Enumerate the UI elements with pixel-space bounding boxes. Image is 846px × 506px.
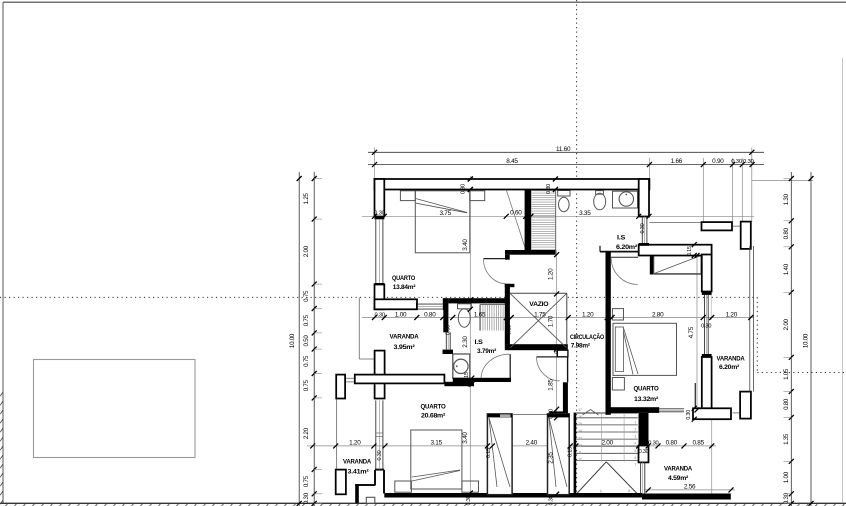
svg-text:1.00: 1.00	[783, 471, 790, 483]
column varanda 6.20 C	[740, 392, 751, 419]
horizontal dim line y=317	[362, 317, 754, 319]
window stairs right lower	[640, 462, 642, 493]
svg-text:0.75: 0.75	[303, 290, 310, 302]
site boundary top edge	[3, 1, 846, 3]
wall stair right	[639, 413, 649, 446]
glass panel 1	[487, 414, 512, 495]
svg-text:8: 8	[628, 489, 630, 493]
wall I.S 3.79 top	[448, 298, 506, 303]
door quarto 13.32	[611, 256, 638, 258]
svg-text:0.15: 0.15	[687, 246, 693, 256]
svg-text:VARANDA: VARANDA	[717, 355, 745, 362]
bed quarto 20.68	[411, 430, 462, 489]
svg-text:3.40: 3.40	[462, 432, 469, 444]
svg-text:0.80: 0.80	[783, 398, 790, 410]
svg-text:0.75: 0.75	[303, 475, 310, 487]
dim extension line top-right corner	[751, 148, 753, 223]
bench left quarto 20.68	[395, 481, 412, 492]
dim ticks y=446 chain	[310, 443, 315, 448]
dim 0.15 wardrobe wall	[692, 242, 697, 247]
svg-text:0.15: 0.15	[464, 372, 470, 382]
wall bottom exterior	[384, 493, 642, 498]
column top-right B	[741, 222, 751, 249]
svg-text:11: 11	[578, 451, 582, 455]
svg-text:6: 6	[635, 456, 637, 460]
svg-text:3.35: 3.35	[579, 210, 591, 217]
dim extension line x=649	[648, 158, 650, 180]
svg-text:15: 15	[578, 422, 582, 426]
svg-text:1.75: 1.75	[534, 312, 546, 319]
wall stub wardrobe	[650, 255, 654, 275]
svg-text:0.30: 0.30	[701, 324, 711, 330]
stair direction chevron	[576, 462, 606, 494]
svg-text:16: 16	[578, 415, 582, 419]
svg-text:0.60: 0.60	[510, 209, 522, 216]
svg-text:2.30: 2.30	[462, 336, 469, 348]
pool rectangle	[34, 360, 196, 458]
wall corridor left lower	[563, 382, 568, 411]
svg-text:0.30: 0.30	[303, 492, 310, 504]
svg-text:13.32m²: 13.32m²	[634, 396, 659, 403]
svg-text:10: 10	[578, 458, 582, 462]
bed quarto 13.32	[613, 323, 677, 375]
site boundary left edge	[2, 2, 4, 503]
washbasin counter I.S 6.20	[613, 191, 638, 208]
glass panel 2	[548, 414, 570, 495]
svg-text:3.40: 3.40	[462, 239, 469, 251]
shower hatch I.S 3.79	[480, 305, 482, 331]
wall bottom-left zigzag	[375, 469, 384, 471]
wall quarto 13.32 left partition	[606, 252, 611, 415]
svg-text:3.15: 3.15	[430, 439, 442, 446]
svg-text:2.80: 2.80	[652, 312, 664, 319]
vertical dotted axis line	[576, 0, 578, 495]
svg-text:14: 14	[578, 429, 582, 433]
dim extension line x=703	[702, 158, 704, 222]
window below cross	[375, 400, 377, 469]
left dim 10.00	[298, 172, 300, 506]
svg-text:0.15: 0.15	[568, 447, 574, 457]
svg-text:1.00: 1.00	[395, 312, 407, 319]
svg-text:0.30: 0.30	[546, 184, 552, 194]
wall stair-right pier	[639, 446, 649, 463]
balcony rail varanda 3.95	[358, 297, 360, 359]
svg-text:10.00: 10.00	[803, 333, 810, 348]
svg-text:I.S: I.S	[475, 339, 484, 346]
rail connector left cross	[345, 377, 355, 379]
svg-text:1.05: 1.05	[783, 368, 790, 380]
svg-text:0.80: 0.80	[666, 439, 678, 446]
dim 0.15 counter	[469, 376, 474, 381]
terrace edge line top-right	[649, 221, 701, 223]
svg-text:0.30: 0.30	[377, 450, 383, 460]
wall corridor left line	[567, 357, 569, 383]
column connector top-right	[732, 225, 741, 227]
step box bottom-left	[366, 497, 375, 503]
svg-text:4.75: 4.75	[688, 326, 695, 338]
svg-text:4.59m²: 4.59m²	[668, 475, 689, 482]
door I.S 3.79	[509, 354, 511, 378]
dim line 11.60	[368, 151, 764, 153]
svg-text:6.20m²: 6.20m²	[719, 364, 740, 371]
door jamb box vazio	[557, 350, 568, 357]
left dimension chain	[313, 172, 315, 506]
svg-text:0.80: 0.80	[783, 227, 790, 239]
stair stringer lines	[601, 413, 603, 462]
window I.S 3.79 left	[445, 332, 447, 349]
svg-text:1.35: 1.35	[783, 433, 790, 445]
vazio opening outline	[510, 292, 567, 294]
svg-text:3.95m²: 3.95m²	[394, 344, 416, 351]
nightstand top quarto 13.32	[612, 309, 623, 320]
svg-text:0.15: 0.15	[486, 448, 492, 458]
balcony edge varanda 4.59	[711, 419, 713, 494]
svg-text:1.25: 1.25	[303, 192, 310, 204]
nightstand right quarto 13.84	[470, 191, 485, 201]
bed quarto 13.84	[415, 191, 470, 253]
svg-text:VAZIO: VAZIO	[529, 301, 548, 308]
svg-text:0.30: 0.30	[549, 495, 555, 505]
dim extension line x=733	[732, 158, 734, 222]
svg-text:1.20: 1.20	[548, 268, 555, 280]
svg-text:6.20m²: 6.20m²	[616, 244, 638, 251]
wall left mid pier	[375, 284, 385, 309]
door quarto 13.84	[483, 258, 505, 260]
column D left	[336, 375, 345, 399]
column top-right A	[702, 222, 733, 230]
svg-text:I.S: I.S	[617, 234, 626, 241]
svg-text:10.00: 10.00	[289, 333, 296, 348]
wall quarto 13.32 right upper	[702, 255, 712, 292]
vertical dim line x=697	[696, 250, 698, 415]
svg-text:0.30: 0.30	[374, 210, 384, 216]
column E varanda 3.41	[336, 470, 346, 495]
svg-text:7.98m²: 7.98m²	[571, 342, 591, 349]
right dimension chain	[790, 172, 792, 506]
svg-text:0.15: 0.15	[606, 324, 612, 334]
window quarto 13.32 bottom	[659, 408, 684, 410]
wall stub quarto door	[505, 255, 510, 260]
setback dotted line left	[0, 296, 509, 298]
toilet I.S 6.20	[558, 191, 570, 197]
wall bottom varanda 4.59	[642, 494, 731, 500]
dim verticals x=556	[554, 252, 559, 257]
wall bath right	[639, 179, 649, 217]
horizontal dim line y=216	[362, 215, 754, 217]
svg-text:9: 9	[600, 490, 602, 494]
svg-text:8.45: 8.45	[506, 158, 518, 165]
wall quarto 13.32 bottom	[606, 407, 660, 413]
bench right quarto 20.68	[462, 481, 479, 492]
svg-text:VARANDA: VARANDA	[390, 333, 419, 340]
svg-text:0.75: 0.75	[303, 379, 310, 391]
svg-text:13: 13	[578, 436, 582, 440]
svg-text:0.30: 0.30	[648, 440, 658, 446]
jamb line varanda 4.59	[694, 383, 696, 408]
stair treads	[576, 412, 638, 414]
svg-text:QUARTO: QUARTO	[634, 385, 659, 392]
toilet I.S 3.79	[458, 304, 472, 309]
wall below shower	[505, 250, 556, 255]
svg-text:3.75: 3.75	[439, 210, 451, 217]
svg-text:0.30: 0.30	[640, 223, 646, 233]
window quarto 13.32 right	[704, 295, 706, 354]
wall partition shower left	[525, 190, 532, 251]
svg-text:3: 3	[635, 435, 637, 439]
svg-text:0.30: 0.30	[374, 312, 384, 318]
right dim 10.00	[810, 172, 812, 506]
svg-text:2.00: 2.00	[601, 439, 613, 446]
window quarto 13.84 left	[375, 219, 377, 283]
svg-text:2.56: 2.56	[684, 484, 696, 491]
svg-text:5: 5	[635, 449, 637, 453]
svg-text:17: 17	[578, 408, 582, 412]
dim extension line x=742	[741, 158, 743, 222]
wardrobe quarto 13.32	[654, 256, 701, 274]
setback dotted corner vertical	[756, 297, 758, 372]
svg-text:0.90: 0.90	[712, 158, 724, 165]
svg-text:0.30: 0.30	[743, 159, 755, 165]
svg-text:0.30: 0.30	[731, 159, 743, 165]
dim 0.30 wall top at x=555	[553, 177, 558, 182]
svg-text:QUARTO: QUARTO	[392, 275, 415, 282]
svg-text:2.00: 2.00	[303, 245, 310, 257]
setback dotted corner horizontal	[757, 372, 846, 374]
svg-text:1.66: 1.66	[671, 158, 683, 165]
svg-text:1.85: 1.85	[548, 379, 555, 391]
svg-text:3.79m²: 3.79m²	[477, 348, 497, 355]
dim line 8.45 chain	[368, 164, 764, 166]
svg-text:2.20: 2.20	[303, 427, 310, 439]
svg-text:2.35: 2.35	[548, 452, 555, 464]
nightstand left quarto 13.84	[400, 191, 415, 201]
column connector bottom-right	[732, 412, 740, 414]
wall cross vertical	[375, 351, 385, 399]
svg-text:1.40: 1.40	[783, 263, 790, 275]
svg-text:0.15: 0.15	[554, 344, 560, 354]
extension line right top	[752, 180, 813, 182]
window varanda 6.20 edge	[749, 246, 751, 392]
extension line x=711	[710, 256, 712, 321]
svg-text:0.30: 0.30	[686, 410, 692, 420]
horizontal dim line y=490	[644, 489, 735, 491]
svg-text:11.60: 11.60	[556, 146, 571, 153]
dim verticals x=470	[468, 177, 473, 182]
svg-text:1.30: 1.30	[783, 193, 790, 205]
svg-text:3.41m²: 3.41m²	[348, 468, 370, 475]
left boundary hatch ticks	[0, 392, 3, 396]
horizontal dim line y=446	[307, 445, 716, 447]
wall I.S 6.20 bottom line	[600, 251, 639, 253]
svg-text:0.30: 0.30	[549, 409, 555, 419]
balcony rail varanda 3.41	[336, 399, 338, 470]
wall quarto 13.84 bottom	[375, 299, 418, 309]
svg-text:0.30: 0.30	[446, 325, 452, 335]
wall cap above counter	[443, 350, 454, 354]
dim vertical 4.75	[695, 253, 700, 258]
wall top exterior	[375, 179, 650, 190]
setback dotted line right	[568, 296, 758, 298]
svg-text:VARANDA: VARANDA	[664, 465, 692, 472]
svg-text:0.80: 0.80	[424, 312, 436, 319]
vazio cross diagonal 2	[510, 294, 566, 348]
wall cross horizontal	[355, 375, 445, 384]
wall left upper	[375, 179, 385, 217]
bidet I.S 6.20	[596, 191, 604, 195]
dim 0.30 varanda top bar	[692, 406, 697, 411]
svg-text:QUARTO: QUARTO	[421, 403, 446, 410]
window quarto 13.84 bottom	[417, 303, 443, 305]
dim 2.56	[646, 487, 651, 492]
wall stair left	[574, 413, 577, 495]
wall varanda 4.59 top bar	[693, 408, 731, 419]
svg-text:1: 1	[635, 420, 637, 424]
svg-text:0.30: 0.30	[466, 495, 472, 505]
vertical dim line x=470	[469, 176, 471, 497]
svg-text:0.75: 0.75	[303, 355, 310, 367]
svg-text:1.20: 1.20	[726, 312, 738, 319]
svg-text:1.65: 1.65	[474, 312, 486, 319]
svg-text:0.85: 0.85	[692, 439, 704, 446]
wall vazio left	[505, 284, 510, 345]
shower hatch I.S 6.20	[532, 190, 556, 192]
svg-text:2.40: 2.40	[526, 439, 538, 446]
dim ticks y=317 chain	[372, 315, 377, 320]
svg-text:0.15: 0.15	[507, 325, 513, 335]
svg-text:7: 7	[635, 463, 637, 467]
vazio cross diagonal 1	[510, 294, 566, 348]
wall I.S 3.79 bottom lower	[444, 382, 474, 386]
svg-text:2.00: 2.00	[783, 318, 790, 330]
dim ticks y=216 room widths	[372, 214, 377, 219]
window bath right	[641, 217, 643, 244]
svg-text:VARANDA: VARANDA	[343, 458, 371, 465]
svg-text:0.30: 0.30	[461, 184, 467, 194]
svg-text:0.30: 0.30	[639, 449, 649, 455]
right site reference line	[842, 58, 844, 502]
svg-text:CIRCULAÇÃO: CIRCULAÇÃO	[570, 332, 604, 341]
svg-text:20.68m²: 20.68m²	[421, 412, 446, 419]
duct shaft 0.60 diagonal	[507, 191, 526, 249]
svg-text:4: 4	[635, 442, 637, 446]
nightstand bottom quarto 13.32	[612, 378, 624, 391]
wall quarto 13.32 top	[639, 245, 712, 256]
wall vazio bottom	[505, 344, 568, 350]
svg-text:2: 2	[635, 428, 637, 432]
svg-text:0.75: 0.75	[303, 314, 310, 326]
vertical dim line x=556	[556, 250, 558, 497]
svg-text:1.20: 1.20	[582, 312, 594, 319]
dim 0.30 wall top at x=470	[468, 177, 473, 182]
svg-text:1.70: 1.70	[548, 315, 555, 327]
svg-text:12: 12	[578, 443, 582, 447]
door circulacao	[537, 356, 561, 358]
glass panel divider line	[512, 414, 547, 416]
svg-text:1.20: 1.20	[349, 439, 361, 446]
washbasin counter I.S 3.79	[453, 354, 470, 378]
site boundary bottom edge with hatch ticks	[0, 502, 846, 504]
svg-text:0.50: 0.50	[303, 335, 310, 347]
stair top caret	[583, 410, 591, 416]
svg-text:13.84m²: 13.84m²	[393, 284, 417, 291]
wall I.S 3.79 left	[443, 298, 448, 332]
wall I.S 3.79 bottom upper	[453, 378, 511, 382]
wall quarto 13.32 right lower	[702, 357, 712, 408]
wall stair junction block	[549, 411, 568, 418]
dim extension line top-left corner	[374, 148, 376, 180]
